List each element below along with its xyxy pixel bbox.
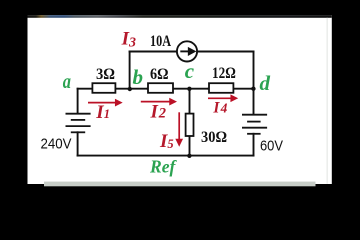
wire: R2 to node c xyxy=(174,88,209,90)
node b junction dot xyxy=(128,87,132,91)
current source arrow xyxy=(180,48,194,54)
svg-text:I2: I2 xyxy=(150,102,166,123)
battery B2 short plate 2 xyxy=(247,133,261,135)
resistor 12ohm (c-d) xyxy=(209,83,233,93)
wire: bottom rail (Ref) xyxy=(78,155,254,157)
wire: battery B2 to bottom rail xyxy=(253,134,255,156)
bottom scroll bar xyxy=(44,182,316,187)
battery B2 long plate 1 xyxy=(242,114,267,116)
svg-text:60V: 60V xyxy=(260,138,283,155)
resistor 30ohm (vertical, c to Ref) xyxy=(186,114,194,136)
svg-text:I4: I4 xyxy=(212,99,227,116)
node c junction dot xyxy=(187,87,191,91)
svg-text:3Ω: 3Ω xyxy=(96,66,115,83)
battery B1 long plate 1 xyxy=(66,113,91,115)
wire: R4 to bottom rail xyxy=(189,137,191,156)
wire: node a drop to battery B1 xyxy=(77,89,79,113)
svg-text:12Ω: 12Ω xyxy=(212,65,236,82)
current source 10A circle xyxy=(177,41,197,61)
battery B2 short plate 1 xyxy=(247,121,261,123)
svg-text:6Ω: 6Ω xyxy=(150,66,169,83)
wire: node c drop to R4 xyxy=(189,89,191,114)
wire: R1 to node b xyxy=(116,88,147,90)
svg-text:a: a xyxy=(63,70,71,93)
wire: vertical from top rail down to node b xyxy=(129,52,131,90)
current arrow I5 (down) xyxy=(178,112,180,140)
svg-text:d: d xyxy=(260,71,271,95)
resistor 3ohm (a-b) xyxy=(92,83,115,93)
faint scrollbar line xyxy=(327,18,328,184)
wire: node a corner to R1 xyxy=(78,88,92,90)
current arrow I4 xyxy=(208,97,232,99)
resistor 6ohm (b-c) xyxy=(148,83,173,93)
white schematic canvas xyxy=(28,15,332,184)
wire: node d drop to battery B2 xyxy=(253,89,255,114)
svg-text:c: c xyxy=(185,59,195,83)
current arrow I1 xyxy=(88,102,116,104)
wire: node b to R2 xyxy=(147,88,150,90)
wire: top rail right segment (source to d corner) xyxy=(198,51,254,53)
battery B1 short plate 2 xyxy=(71,131,85,133)
svg-text:10A: 10A xyxy=(150,33,171,50)
bottom rail junction dot xyxy=(187,154,191,158)
browser top edge strip xyxy=(28,15,332,18)
wire: R3 to node d xyxy=(234,88,254,90)
wire: node c to R3 xyxy=(207,88,210,90)
wire: top rail left segment (b to source) xyxy=(130,51,177,53)
node d junction dot xyxy=(251,87,255,91)
battery B1 short plate 1 xyxy=(71,119,85,121)
svg-text:30Ω: 30Ω xyxy=(201,129,227,146)
svg-text:b: b xyxy=(133,65,144,89)
svg-text:240V: 240V xyxy=(41,135,72,152)
wire: vertical from top rail down to node d xyxy=(253,52,255,89)
battery B1 long plate 2 xyxy=(66,125,91,127)
current arrow I2 xyxy=(141,101,171,103)
battery B2 long plate 2 xyxy=(242,127,267,129)
wire: battery B1 to bottom rail xyxy=(77,132,79,155)
svg-text:Ref: Ref xyxy=(149,157,178,177)
